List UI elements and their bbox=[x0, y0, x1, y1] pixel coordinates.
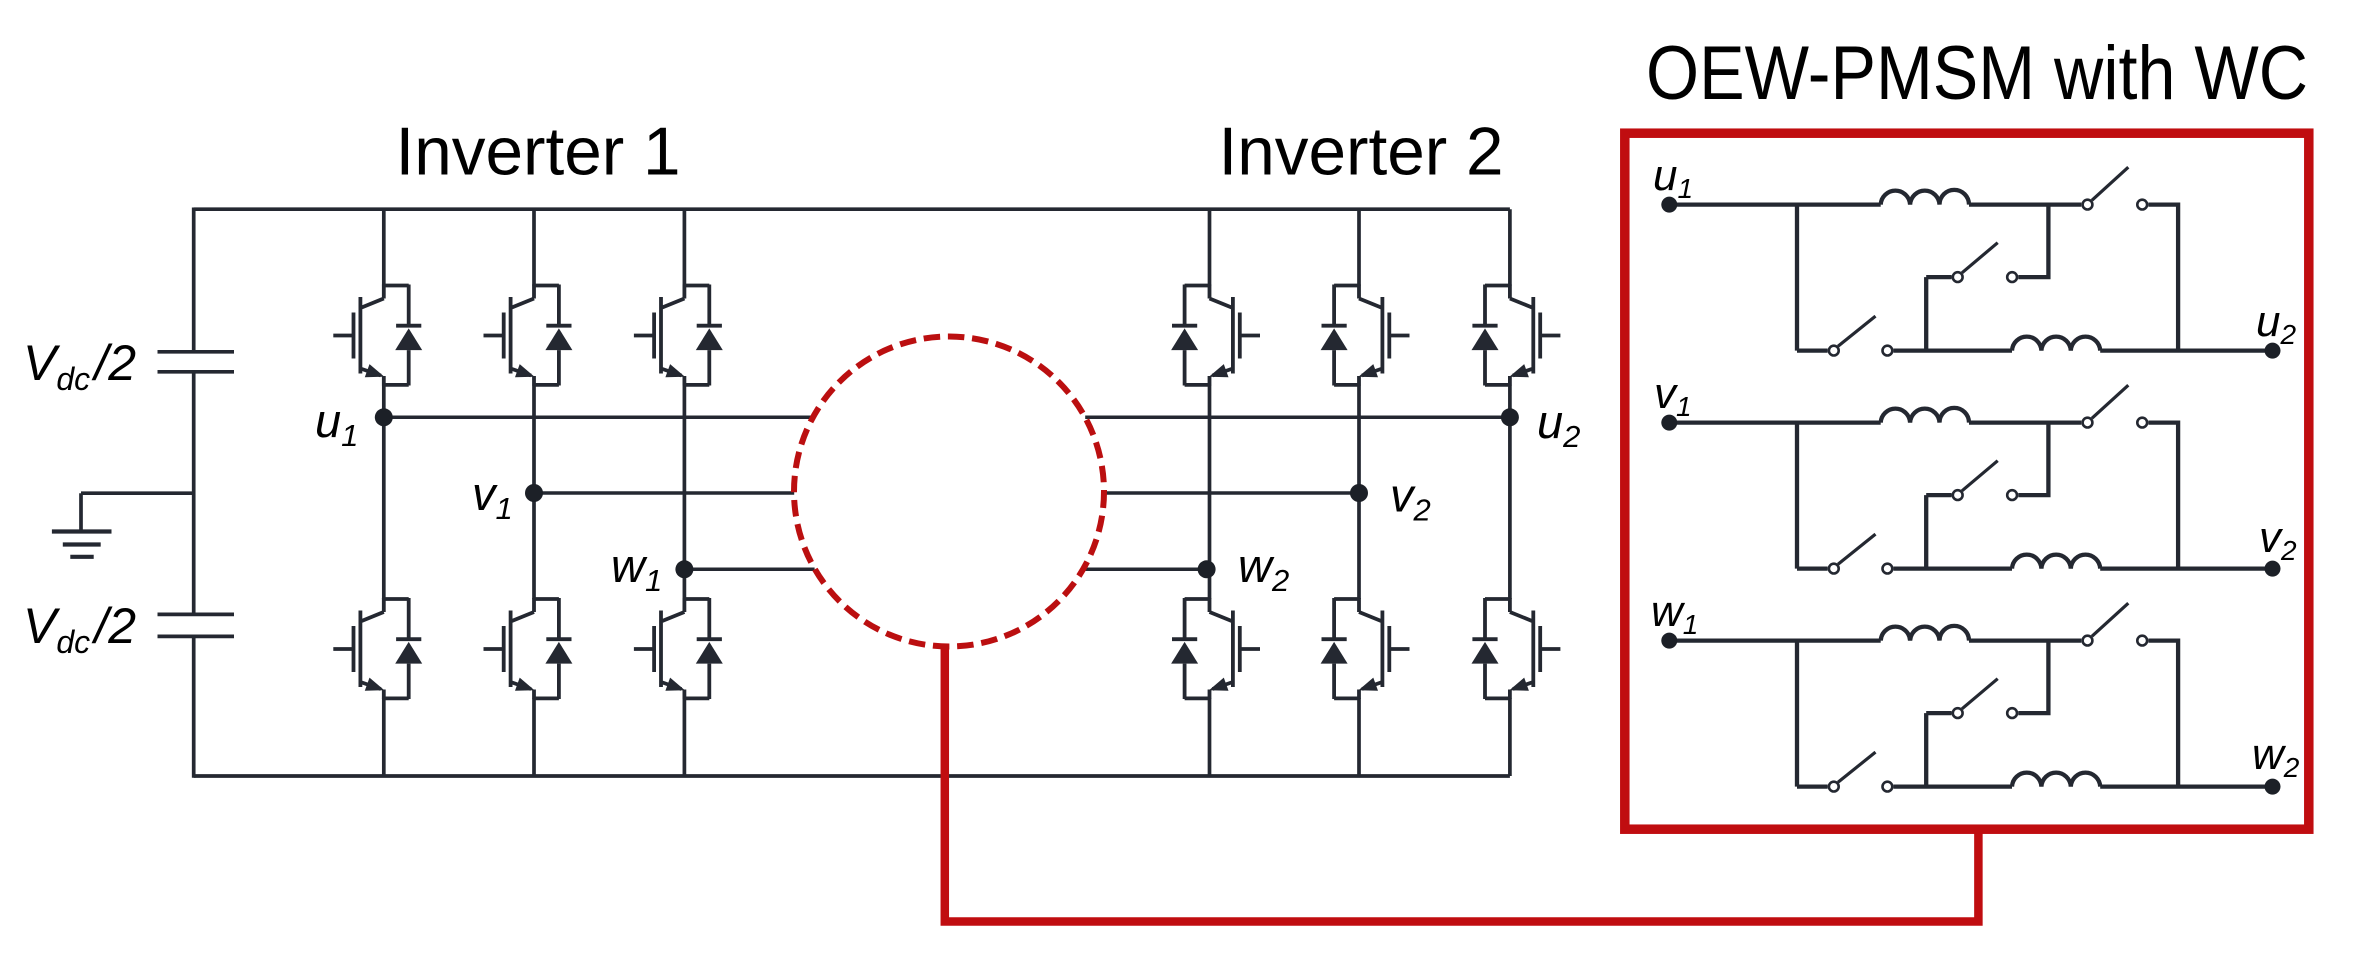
svg-text:v2: v2 bbox=[1390, 469, 1431, 528]
svg-text:w1: w1 bbox=[611, 539, 662, 598]
svg-text:w2: w2 bbox=[2252, 730, 2300, 783]
svg-text:u1: u1 bbox=[315, 394, 358, 453]
svg-text:Inverter 1: Inverter 1 bbox=[396, 113, 681, 189]
svg-text:u1: u1 bbox=[1653, 151, 1693, 204]
svg-text:Vdc /2: Vdc /2 bbox=[23, 335, 136, 397]
svg-text:v2: v2 bbox=[2259, 513, 2297, 566]
svg-text:w1: w1 bbox=[1651, 587, 1698, 640]
svg-text:u2: u2 bbox=[1537, 395, 1580, 454]
svg-text:OEW-PMSM with WC: OEW-PMSM with WC bbox=[1646, 31, 2308, 116]
svg-text:w2: w2 bbox=[1238, 539, 1289, 598]
svg-text:v1: v1 bbox=[472, 467, 513, 526]
svg-text:v1: v1 bbox=[1654, 369, 1692, 422]
svg-text:u2: u2 bbox=[2256, 297, 2296, 350]
svg-text:Vdc /2: Vdc /2 bbox=[23, 598, 136, 660]
svg-text:Inverter 2: Inverter 2 bbox=[1219, 113, 1504, 189]
